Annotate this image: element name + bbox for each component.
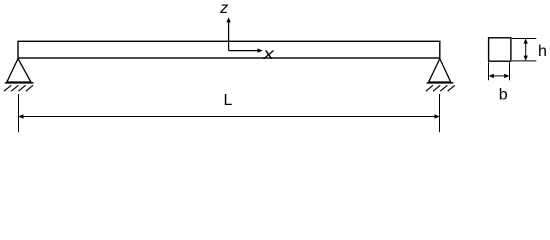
svg-text:L: L — [223, 92, 232, 109]
left support pin triangle — [5, 59, 34, 83]
svg-text:h: h — [538, 43, 547, 60]
b dimension double arrow — [489, 74, 510, 78]
left support hatching — [4, 85, 33, 91]
cross-section square — [489, 38, 511, 61]
z axis — [226, 17, 230, 50]
h dimension extension lines — [512, 39, 536, 61]
svg-text:x: x — [262, 44, 274, 62]
L dimension line with arrows — [18, 114, 439, 118]
L dimension extension line right — [439, 94, 441, 132]
b dimension extension lines — [489, 62, 510, 80]
right support pin triangle — [427, 59, 454, 83]
svg-text:b: b — [499, 86, 508, 103]
beam outline — [18, 41, 440, 58]
L dimension extension line left — [18, 94, 20, 132]
right support hatching — [426, 85, 455, 91]
x axis — [229, 48, 263, 52]
svg-text:z: z — [219, 0, 228, 17]
h dimension double arrow — [524, 38, 528, 60]
